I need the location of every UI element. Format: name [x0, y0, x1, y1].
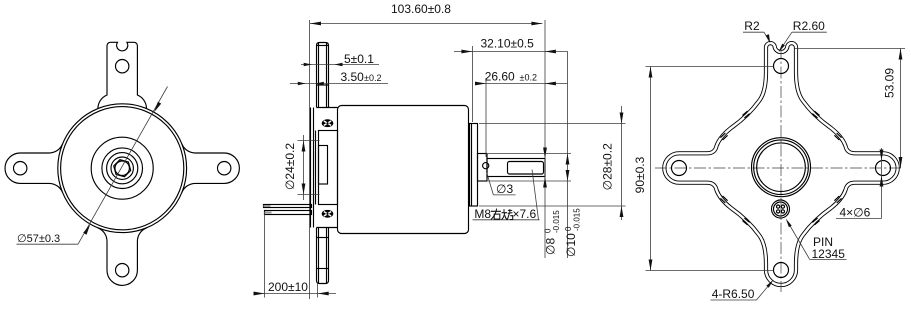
- dimension ∅28 extension ticks: [479, 123, 626, 125]
- dimension ∅24 arrows: [302, 141, 306, 152]
- lead wire 1: [264, 205, 312, 208]
- left-view top mounting hole ∅6: [116, 59, 129, 72]
- motor body: [338, 106, 469, 234]
- left-view shaft hex socket: [114, 160, 131, 177]
- dimension 200 arrows: [254, 292, 265, 296]
- dimension 32.10 arrows: [461, 50, 472, 54]
- left-view left mounting arm: [5, 144, 63, 193]
- dimension ∅24±0.2 text: [283, 143, 297, 190]
- dimension 53.09 arrows: [899, 49, 903, 60]
- dimension 200±10 extension line: [264, 213, 266, 298]
- dimension 26.60 arrows: [475, 82, 486, 86]
- dimension 200±10 line: [254, 293, 336, 295]
- dimension 5 arrows: [304, 63, 312, 66]
- svg-text:∅24±0.2: ∅24±0.2: [283, 143, 297, 190]
- rear-view left hole ∅6: [672, 161, 687, 176]
- rear-view bracket silhouette outer contour: [664, 43, 897, 285]
- dimension ∅8 arrows: [543, 148, 547, 159]
- svg-text:90±0.3: 90±0.3: [633, 156, 647, 193]
- dimension 4x∅6 line: [881, 148, 883, 219]
- side-view tab step lines: [317, 107, 338, 109]
- svg-text:12345: 12345: [812, 247, 846, 261]
- dimension ∅28±0.2 text: [601, 143, 615, 190]
- label R2.60 arrow: [779, 44, 785, 52]
- left-view shaft collar circle: [107, 153, 138, 184]
- left-view right mounting hole ∅6: [218, 162, 231, 175]
- side-view bracket plate lines: [310, 108, 312, 228]
- label PIN arrow: [786, 219, 792, 228]
- dimension ∅24 extension ticks: [298, 140, 320, 142]
- svg-text:∅8: ∅8: [544, 238, 558, 255]
- dimension ∅8 tolerance text: [544, 210, 562, 255]
- left-view motor outer circle ∅57: [58, 104, 187, 233]
- left-view bearing circle: [102, 148, 143, 189]
- dimension ∅10 extension ticks: [488, 153, 571, 155]
- rear-view right hole ∅6: [876, 161, 891, 176]
- shaft ∅10 segment: [478, 154, 488, 182]
- dimension 53.09 line: [900, 49, 902, 169]
- rear-view horizontal centerline: [655, 167, 901, 169]
- dimension 5±0.1 line: [301, 64, 379, 66]
- dimension 26.60 left extension line: [485, 78, 487, 157]
- left-view bottom mounting hole ∅6: [116, 264, 129, 277]
- svg-text:±0.2: ±0.2: [364, 73, 381, 83]
- gearbox end cap ∅28: [470, 124, 478, 207]
- svg-text:±0.2: ±0.2: [520, 73, 537, 83]
- left-view motor inner rim circle: [61, 107, 184, 230]
- dimension ∅24±0.2 line: [303, 135, 305, 200]
- side-view bottom tab inner lines: [318, 228, 320, 284]
- dimension ∅57±0.3 diagonal line: [78, 87, 168, 245]
- side-view top tab inner lines: [318, 43, 320, 108]
- dimension ∅28 line: [621, 106, 623, 220]
- side-view hub inner rect: [319, 146, 328, 185]
- label 4-R6.50 leader: [711, 299, 757, 301]
- svg-text:3.50: 3.50: [341, 70, 365, 84]
- svg-text:5±0.1: 5±0.1: [344, 52, 374, 66]
- lead wire 2: [265, 211, 312, 215]
- left-view bottom mounting arm: [98, 228, 147, 286]
- side-view bracket hub ∅24 boss: [319, 131, 338, 205]
- svg-text:R2.60: R2.60: [793, 19, 825, 33]
- svg-text:∅10: ∅10: [564, 233, 578, 257]
- dimension 103.60 right arrow: [531, 22, 542, 26]
- thread relief inner rect: [508, 162, 544, 175]
- left-view right mounting arm: [182, 144, 240, 193]
- dimension 26.60±0.2 line: [476, 83, 568, 85]
- dimension 53.09 text: [883, 68, 897, 98]
- svg-text:M8: M8: [474, 207, 491, 221]
- cross hole ∅3: [483, 163, 489, 169]
- side-view bracket top tab: [317, 43, 329, 108]
- label R2 arrow: [766, 34, 770, 43]
- rear-view center boss circles: [752, 138, 811, 197]
- left-view shaft thread ring: [111, 157, 133, 179]
- dimension 32.10 left extension line: [471, 46, 473, 122]
- rear-view crimp marks: [814, 111, 819, 115]
- svg-text:-0.015: -0.015: [573, 208, 582, 231]
- svg-text:4-R6.50: 4-R6.50: [712, 287, 755, 301]
- dimension ∅57±0.3 lower arrow: [83, 224, 90, 235]
- dimension ∅57±0.3 upper arrow: [154, 102, 161, 113]
- dimension 90±0.3 line: [650, 67, 652, 271]
- svg-text:×7.6: ×7.6: [513, 207, 537, 221]
- side-view bottom tab: [317, 228, 329, 284]
- shaft ∅8 threaded segment: [487, 159, 545, 177]
- dimension ∅57±0.3 leader underline: [17, 243, 79, 245]
- svg-text:4×∅6: 4×∅6: [840, 206, 871, 220]
- dimension 90±0.3 extension lines: [646, 66, 774, 68]
- dimension ∅10 tolerance text: [564, 208, 582, 257]
- side-view mounting screw 1: [322, 119, 334, 127]
- svg-text:53.09: 53.09: [883, 68, 897, 98]
- svg-text:R2: R2: [744, 19, 760, 33]
- dimension 103.60 left arrow: [310, 22, 321, 26]
- left-view shaft bore circle: [115, 161, 129, 175]
- label M8 right-hand-thread leader: [532, 170, 539, 220]
- side-view bracket front-face extension line: [309, 20, 311, 299]
- dimension 103.60 right extension line: [544, 20, 546, 258]
- dimension ∅28 arrows: [620, 113, 624, 124]
- end cap inner line: [471, 124, 473, 207]
- svg-text:∅28±0.2: ∅28±0.2: [601, 143, 615, 190]
- svg-text:26.60: 26.60: [485, 70, 515, 84]
- svg-text:200±10: 200±10: [268, 280, 308, 294]
- rear-view vertical centerline: [780, 47, 782, 292]
- label R2.60 leader: [792, 31, 827, 33]
- rear-view pin connector: [772, 200, 790, 218]
- label ∅3 leader: [486, 171, 493, 195]
- label 4-R6.50 arrow: [766, 280, 773, 288]
- svg-text:103.60±0.8: 103.60±0.8: [391, 2, 451, 16]
- svg-text:-0.015: -0.015: [552, 210, 561, 233]
- dimension 32.10±0.5 line: [454, 51, 568, 53]
- svg-text:∅57±0.3: ∅57±0.3: [17, 233, 60, 245]
- label PIN leader: [810, 258, 847, 260]
- dimension 4x∅6 arrows: [880, 150, 884, 161]
- left-view left mounting hole ∅6: [14, 162, 27, 175]
- rear-view bracket inner contour: [664, 43, 897, 285]
- label R2 leader: [743, 31, 764, 33]
- label 4x∅6 underline: [836, 218, 882, 220]
- rear-view top hole ∅6: [774, 59, 789, 74]
- dimension 3.50 arrows: [298, 82, 306, 85]
- dimension ∅10 line: [567, 51, 569, 258]
- dimension 3.50±0.2 line: [290, 83, 388, 85]
- left-view boss circle ∅24: [91, 137, 153, 199]
- dimension 90 arrows: [649, 67, 653, 78]
- side-view mounting screw 2: [322, 210, 334, 218]
- dimension 90±0.3 text: [633, 156, 647, 193]
- dimension 103.60±0.8 line: [310, 23, 542, 25]
- svg-text:∅3: ∅3: [496, 182, 513, 196]
- rear-view bottom hole ∅6: [774, 263, 789, 278]
- dimension 53.09 extension line: [795, 48, 906, 50]
- dimension ∅10 arrows: [566, 154, 570, 165]
- left-view top mounting arm with notch: [98, 42, 147, 108]
- svg-text:32.10±0.5: 32.10±0.5: [481, 36, 535, 50]
